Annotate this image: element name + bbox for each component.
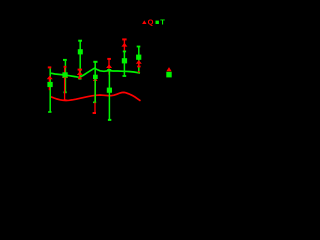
red error bar R5 <box>107 59 111 75</box>
green square G8 <box>166 72 171 78</box>
red bar R1 lower segment <box>48 79 50 90</box>
red smooth curve (Q fit) <box>51 92 141 100</box>
red error bar R4 <box>93 77 96 113</box>
red triangle R5 <box>106 64 112 68</box>
red triangle R7 (under square) <box>136 60 142 64</box>
green error bar G1 <box>48 68 51 112</box>
green square G3 <box>78 49 83 54</box>
green square G5 <box>107 88 112 93</box>
legend marker: red triangle <box>142 20 146 24</box>
red triangle R2 (under square) <box>62 74 68 78</box>
legend marker: green square <box>156 21 159 24</box>
svg-text:T: T <box>160 17 165 26</box>
red triangle R6 <box>121 43 127 47</box>
red triangle R1 <box>47 76 53 80</box>
red error bar R6 <box>122 39 126 50</box>
red error bar R2 <box>63 67 66 100</box>
green square G2 <box>62 72 67 77</box>
green square G7 <box>136 55 141 60</box>
green square G1 <box>47 82 52 87</box>
red triangle R8 <box>166 67 171 71</box>
green connecting polyline (T series) <box>51 68 140 77</box>
red error bar R3 <box>78 70 83 79</box>
green error bar G6 <box>123 51 127 76</box>
red triangle R4 (under square) <box>93 77 98 81</box>
red error bar R7 <box>137 62 140 72</box>
green error bar G5 <box>107 70 111 120</box>
green square G4 <box>93 75 98 79</box>
green error bar G3 <box>78 41 82 79</box>
red triangle R3 <box>77 71 83 75</box>
green error bar G7 <box>137 47 141 73</box>
green error bar G4 <box>93 62 98 103</box>
green error bar G2 <box>63 60 67 93</box>
green square G6 <box>122 58 127 63</box>
red cap R1 top <box>48 66 52 68</box>
green bar G4 overlay <box>94 78 96 102</box>
svg-text:Q: Q <box>148 18 154 27</box>
